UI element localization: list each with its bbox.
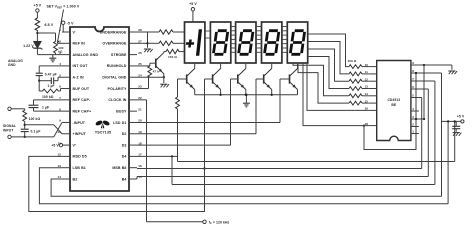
svg-text:MSD D5: MSD D5 [73,155,87,159]
svg-text:5: 5 [412,93,414,97]
svg-text:-INPUT: -INPUT [73,121,86,125]
svg-text:26: 26 [138,51,142,55]
svg-text:6: 6 [412,85,414,89]
svg-text:INPUT: INPUT [3,128,13,132]
svg-text:15: 15 [138,175,142,179]
svg-text:0.47 µF: 0.47 µF [45,72,57,76]
svg-text:GND: GND [8,63,16,67]
svg-text:6.8 V: 6.8 V [45,23,54,27]
svg-text:100 kΩ: 100 kΩ [29,117,41,121]
svg-text:150 Ω: 150 Ω [168,55,177,59]
svg-text:1 µF: 1 µF [42,106,49,110]
svg-text:-5 V: -5 V [67,21,74,25]
svg-text:TSC7135: TSC7135 [95,131,111,135]
svg-text:BUSY: BUSY [116,109,127,113]
svg-text:16: 16 [138,164,142,168]
svg-text:+5 V: +5 V [189,2,197,6]
svg-text:+5 V: +5 V [457,115,465,119]
svg-text:1.22 V: 1.22 V [23,44,34,48]
svg-text:BUF OUT: BUF OUT [73,87,90,91]
svg-text:D4: D4 [122,155,127,159]
svg-text:DIGITAL GND: DIGITAL GND [102,76,126,80]
svg-text:1: 1 [412,129,414,133]
svg-text:REF CAP-: REF CAP- [73,98,91,102]
svg-text:+5 V: +5 V [34,3,42,7]
svg-text:BE: BE [391,103,396,107]
svg-text:3: 3 [412,115,414,119]
svg-text:4: 4 [412,107,414,111]
svg-text:REF IN: REF IN [73,42,86,46]
svg-text:SIGNAL: SIGNAL [3,124,16,128]
svg-text:B2: B2 [73,177,78,181]
svg-text:kΩ: kΩ [58,50,63,54]
svg-text:D3: D3 [122,143,127,147]
svg-text:8: 8 [412,69,414,73]
svg-text:7: 7 [412,77,414,81]
svg-text:D2: D2 [122,132,127,136]
svg-text:2: 2 [412,122,414,126]
svg-text:150 Ω: 150 Ω [347,59,356,63]
svg-text:9: 9 [59,119,61,123]
svg-text:RUN/HOLD: RUN/HOLD [107,64,127,68]
svg-text:REF CAP+: REF CAP+ [73,109,92,113]
svg-text:100 kΩ: 100 kΩ [42,95,54,99]
svg-text:UNDERRANGE: UNDERRANGE [100,30,127,34]
svg-text:MSB B8: MSB B8 [112,166,126,170]
svg-text:21: 21 [138,107,142,111]
svg-text:+5 V: +5 V [51,143,59,147]
svg-text:47 k: 47 k [153,69,160,73]
svg-text:CLOCK IN: CLOCK IN [108,98,126,102]
svg-text:B4: B4 [122,177,127,181]
svg-text:1 µF: 1 µF [48,84,55,88]
svg-text:ANALOG GND: ANALOG GND [73,53,99,57]
svg-text:POLARITY: POLARITY [108,87,127,91]
svg-text:+INPUT: +INPUT [73,132,87,136]
svg-text:CD4513: CD4513 [387,98,400,102]
svg-text:INT OUT: INT OUT [73,64,89,68]
svg-text:OVERRANGE: OVERRANGE [102,42,127,46]
svg-text:STROBE: STROBE [111,53,127,57]
svg-text:A-Z IN: A-Z IN [73,76,84,80]
svg-text:0.1 µF: 0.1 µF [31,130,41,134]
svg-text:LSD D1: LSD D1 [113,121,126,125]
svg-text:9: 9 [412,61,414,65]
svg-text:LSB B1: LSB B1 [73,166,86,170]
